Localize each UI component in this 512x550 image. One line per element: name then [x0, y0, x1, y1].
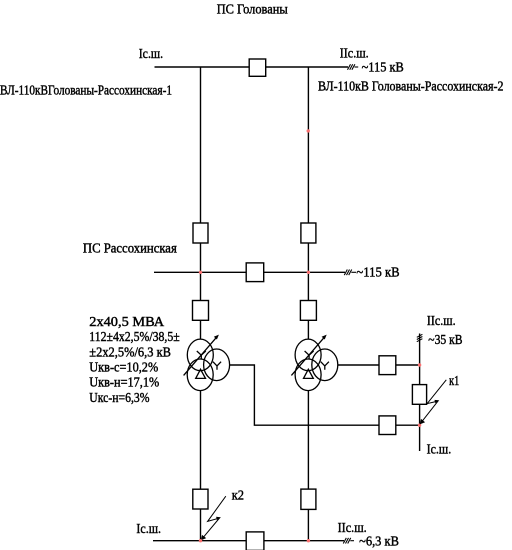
breaker lower left feeder	[193, 301, 209, 321]
breaker upper left feeder	[193, 223, 208, 243]
wire: T1 MV output (right, down, right to 35kV bus)	[230, 365, 420, 425]
break symbol on 35kV bus top	[417, 334, 423, 341]
T2 wye symbol MV	[321, 362, 329, 370]
svg-text:~115 кВ: ~115 кВ	[356, 265, 399, 280]
node on right feeder (red junction dot)	[307, 129, 310, 132]
wire bus I 110kV (top horizontal bus)	[155, 66, 349, 68]
T1 LV winding circle	[187, 359, 213, 391]
T1 tap-changer arrow	[184, 337, 217, 375]
breaker upper right feeder	[301, 223, 316, 243]
svg-text:±2х2,5%/6,3 кВ: ±2х2,5%/6,3 кВ	[89, 345, 171, 360]
T2 LV winding circle	[295, 359, 321, 391]
svg-text:Iс.ш.: Iс.ш.	[139, 47, 163, 62]
svg-text:~115 кВ: ~115 кВ	[362, 60, 404, 75]
T2 tap-changer arrow	[291, 337, 324, 375]
svg-text:Iс.ш.: Iс.ш.	[136, 522, 161, 537]
T1 wye symbol MV	[213, 362, 221, 370]
T1 HV winding circle	[187, 339, 213, 371]
svg-text:Uкс-н=6,3%: Uкс-н=6,3%	[89, 391, 149, 406]
svg-text:к2: к2	[232, 488, 244, 503]
wire: T2 LV vertical down to 6.3kV bus	[307, 390, 309, 540]
node bus2 x left feeder (red junction dot)	[199, 271, 202, 274]
T1 wye symbol HV	[197, 351, 206, 359]
breaker on 6.3kV bus (sectionalizer)	[246, 532, 264, 550]
breaker bottom left feeder	[193, 489, 208, 509]
wire: 35kV vertical bus	[419, 334, 421, 452]
node 6.3kV bus x left feeder (red junction dot)	[199, 539, 202, 542]
svg-text:Uкв-н=17,1%: Uкв-н=17,1%	[89, 376, 159, 391]
T1 MV winding circle	[204, 349, 230, 381]
T2 wye symbol HV	[305, 351, 314, 359]
short-circuit arrow к1 (lightning bolt)	[422, 380, 447, 422]
node 35kV bus x T2 output (red junction dot)	[418, 363, 421, 366]
svg-text:ПС Голованы: ПС Голованы	[217, 3, 289, 18]
svg-text:ПС Рассохинская: ПС Рассохинская	[83, 241, 177, 256]
T2 HV winding circle	[295, 339, 321, 371]
svg-text:к1: к1	[449, 374, 459, 389]
breaker T1 35kV output	[379, 416, 396, 435]
wire: left feeder vertical (bus I to transformer T1)	[200, 67, 202, 339]
svg-text:Iс.ш.: Iс.ш.	[427, 442, 452, 457]
T1 delta symbol LV	[196, 369, 206, 378]
breaker on 35kV bus (sectionalizer)	[412, 385, 426, 405]
svg-text:~35 кВ: ~35 кВ	[428, 333, 462, 348]
wire: right feeder vertical (bus II to transformer T2)	[307, 67, 309, 339]
breaker on bus I (sectionalizer)	[249, 59, 266, 76]
svg-text:IIс.ш.: IIс.ш.	[427, 314, 456, 329]
wire: T2 MV output to 35kV bus	[338, 364, 420, 366]
break symbol on 6.3kV bus right end	[343, 538, 354, 544]
breaker T2 35kV output	[379, 356, 396, 375]
svg-text:112±4х2,5%/38,5±: 112±4х2,5%/38,5±	[89, 330, 180, 345]
svg-text:~6,3 кВ: ~6,3 кВ	[359, 534, 399, 549]
break symbol on bus I 110kV right end	[348, 64, 359, 70]
svg-text:2х40,5 МВА: 2х40,5 МВА	[89, 315, 165, 330]
breaker on second bus (sectionalizer)	[246, 263, 264, 282]
breaker bottom right feeder	[301, 489, 316, 509]
T2 MV winding circle	[312, 349, 338, 381]
wire bus 110kV at PS Rassokhinskaya (second horizontal bus)	[154, 271, 345, 273]
svg-text:Uкв-с=10,2%: Uкв-с=10,2%	[89, 361, 158, 376]
node bus2 x right feeder (red junction dot)	[307, 271, 310, 274]
short-circuit arrow к2 (lightning bolt)	[203, 496, 226, 538]
svg-text:ВЛ-110кВ Голованы-Рассохинская: ВЛ-110кВ Голованы-Рассохинская-2	[318, 79, 504, 94]
node 35kV bus x T1 output (red junction dot)	[418, 424, 421, 427]
transformer data text block	[89, 315, 180, 406]
wire bus 6.3kV (bottom horizontal bus)	[153, 540, 344, 542]
transformer T2 (three-winding with OLTC)	[291, 337, 337, 390]
T2 delta symbol LV	[304, 369, 314, 378]
breaker lower right feeder	[300, 301, 316, 321]
transformer T1 (three-winding with OLTC)	[184, 337, 230, 390]
svg-text:ВЛ-110кВГолованы-Рассохинская-: ВЛ-110кВГолованы-Рассохинская-1	[0, 83, 172, 98]
break symbol on second bus right end	[344, 270, 356, 276]
wire: T1 LV vertical down to 6.3kV bus	[200, 390, 202, 540]
svg-text:IIс.ш.: IIс.ш.	[340, 47, 369, 62]
node 6.3kV bus x right feeder (red junction dot)	[307, 539, 310, 542]
